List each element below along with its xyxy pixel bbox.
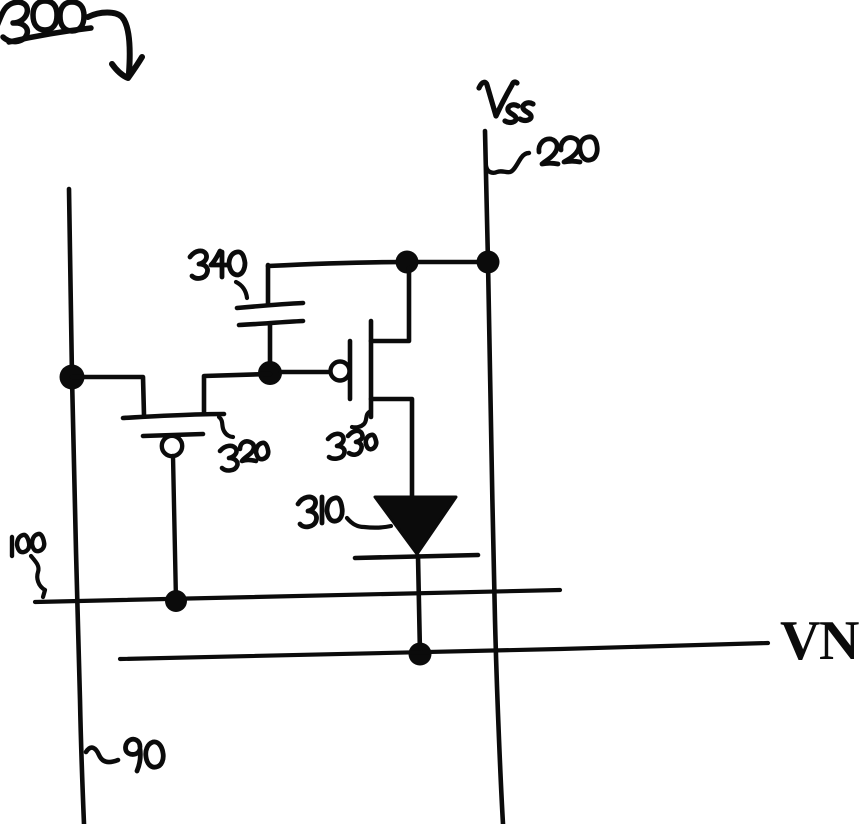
node on left bus <box>60 365 85 390</box>
diode D310 bottom wire <box>418 556 420 654</box>
diode D310 cathode bar <box>355 555 478 558</box>
wire line 100 <box>35 590 560 602</box>
wire left node to 320 left terminal <box>72 377 144 415</box>
label 340 leader <box>236 282 247 298</box>
node on VN line <box>409 643 432 666</box>
wire 320 gate down to line 100 <box>173 456 176 601</box>
label 220 squiggle <box>486 153 529 173</box>
underline of 300 <box>9 28 91 42</box>
transistor 330 gate bar <box>348 341 353 399</box>
wire bus 90 (left vertical) <box>69 189 84 824</box>
wire bus 220 Vss (right vertical) <box>485 131 503 824</box>
node at rail / bus 220 <box>477 251 500 274</box>
wire top rail <box>268 262 488 266</box>
node line 100 / 320 gate <box>165 590 187 612</box>
wire line VN <box>120 643 768 659</box>
arrow leader from 300 <box>88 13 130 74</box>
diode D310 triangle <box>375 497 456 554</box>
capacitor C340 top wire <box>266 265 271 305</box>
label 310 <box>298 497 342 527</box>
transistor 320 gate bar <box>143 434 203 436</box>
capacitor C340 top plate <box>237 303 303 308</box>
label 330 <box>328 431 376 459</box>
label Vss <box>479 82 533 122</box>
transistor 320 channel bar <box>123 414 224 418</box>
label 320 squiggle <box>219 417 233 437</box>
label 340 <box>190 251 245 279</box>
capacitor C340 bottom wire <box>268 324 273 373</box>
transistor 330 gate circle <box>331 362 350 381</box>
capacitor C340 bottom plate <box>239 321 303 325</box>
transistor 330 channel bar <box>369 321 374 417</box>
wire gate node to 320 right terminal <box>204 374 270 414</box>
node at rail / 330 drain <box>396 251 419 274</box>
label 100 <box>12 534 44 556</box>
label 90 <box>126 739 164 771</box>
label 90 squiggle <box>86 748 118 762</box>
label 100 squiggle <box>31 556 45 597</box>
wire gate node to 330 gate <box>281 370 330 375</box>
label 310 leader <box>347 518 391 528</box>
node gate (junction of cap, 320 drain, 330 gate) <box>258 361 282 385</box>
svg-text:VN: VN <box>780 610 859 672</box>
label 300 <box>0 1 84 42</box>
transistor 320 gate circle <box>162 436 182 456</box>
label 220 <box>539 137 597 164</box>
label 330 squiggle <box>352 411 371 427</box>
label 320 <box>220 441 268 470</box>
transistor 330 drain wire <box>371 268 409 341</box>
transistor 330 source wire <box>371 399 412 497</box>
